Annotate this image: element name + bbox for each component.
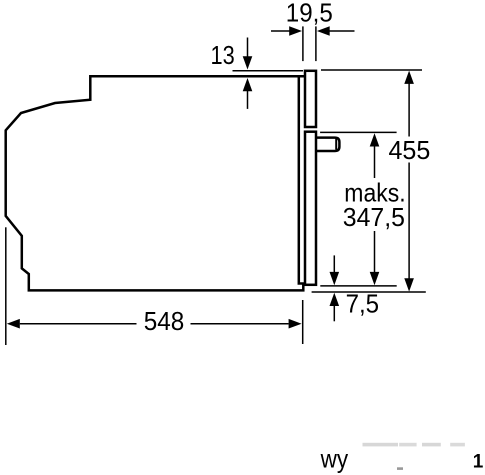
small dark dash remnant — [397, 467, 403, 470]
handle knob — [316, 138, 339, 151]
door front — [305, 132, 316, 285]
svg-text:455: 455 — [389, 135, 431, 165]
dim 548 right extension line — [302, 300, 304, 344]
dim 13 extension line — [233, 70, 304, 72]
dim 455 top extension line — [321, 69, 422, 71]
dim 19,5 right arrow — [329, 30, 355, 32]
knob end-cap line — [335, 139, 337, 150]
dim maks line upper part with up arrow — [374, 145, 376, 178]
door-bottom reference line (upper 7,5 line) — [320, 285, 396, 287]
svg-text:wy: wy — [320, 443, 348, 473]
dim 455 line upper part with up arrow — [408, 82, 410, 137]
dim 13 down arrow — [247, 38, 249, 58]
control panel — [305, 71, 316, 127]
oven body outline — [6, 76, 305, 290]
dim maks 347,5 top extension line — [320, 131, 397, 133]
svg-text:347,5: 347,5 — [343, 202, 405, 232]
dim 455 line lower part with down arrow — [408, 163, 410, 280]
dim 19,5 left arrow — [271, 30, 290, 32]
dim 548 right arrow — [289, 319, 302, 329]
svg-text:7,5: 7,5 — [346, 289, 380, 319]
faint cropped text remnants — [363, 443, 399, 447]
dim 548 left arrow — [7, 319, 20, 329]
dim 19,5 left extension line — [302, 26, 304, 61]
svg-text:1: 1 — [473, 452, 484, 473]
dim 7,5 down arrow — [333, 255, 335, 272]
body-bottom reference line (lower 7,5 line) — [312, 291, 426, 293]
dim 19,5 right extension line — [315, 26, 317, 61]
svg-text:13: 13 — [211, 40, 235, 70]
svg-text:19,5: 19,5 — [286, 0, 333, 27]
svg-text:548: 548 — [144, 306, 185, 336]
dim 13 up arrow — [247, 91, 249, 109]
dim 548 left extension line — [5, 227, 7, 345]
dim 7,5 up arrow — [333, 306, 335, 322]
dim maks line lower part with down arrow — [374, 231, 376, 273]
